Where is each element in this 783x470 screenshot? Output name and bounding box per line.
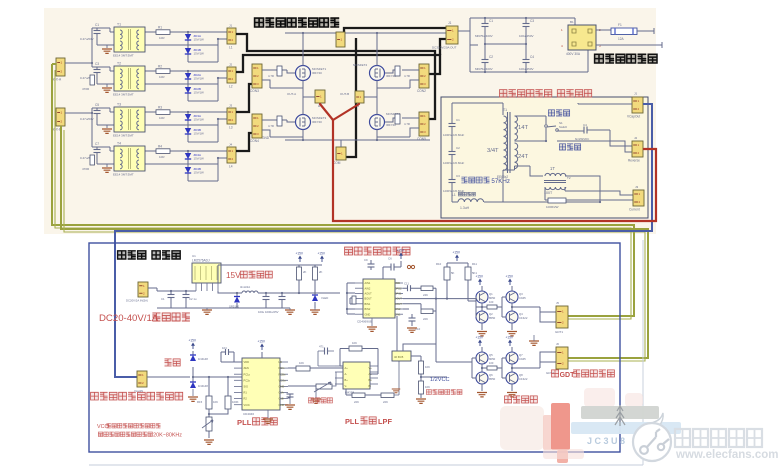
connector L3 row3	[227, 108, 236, 124]
svg-text:VCOo: VCOo	[279, 378, 287, 382]
ground C10	[407, 328, 417, 332]
ground divider	[416, 399, 426, 403]
zener ZD3A row3	[185, 114, 191, 120]
NC knot symbol	[407, 265, 410, 268]
capacitor C1 row1 input	[94, 30, 101, 32]
svg-text:R2: R2	[158, 65, 162, 69]
zener ZD1A row1	[185, 34, 191, 40]
diode D5 clamp	[190, 355, 196, 361]
svg-text:2K: 2K	[303, 270, 307, 274]
zener ZD2A row2	[185, 73, 191, 79]
svg-text:C3: C3	[530, 19, 534, 23]
svg-text:10K: 10K	[213, 400, 218, 404]
resistor R13 100	[487, 366, 497, 370]
wire M2 drain/source	[376, 33, 378, 97]
svg-text:24T: 24T	[518, 154, 528, 160]
connector GDT2	[556, 347, 568, 369]
wire totem pole column	[481, 347, 483, 391]
svg-text:J3: J3	[635, 185, 639, 189]
transistor Q3 C945	[506, 291, 518, 303]
svg-text:2K: 2K	[319, 270, 323, 274]
svg-text:J2: J2	[229, 63, 233, 67]
induction heating tank circuit box	[441, 97, 648, 218]
svg-text:ZEN: ZEN	[244, 366, 249, 370]
connector J3 Current	[633, 190, 644, 206]
wire black twisted pair row2 bus to upper CON2	[236, 55, 440, 74]
svg-text:+15V: +15V	[189, 339, 197, 343]
connector J1 VcapOut	[632, 97, 643, 113]
svg-text:GND: GND	[279, 403, 285, 407]
capacitor C2 MKP 5u/400V	[482, 59, 489, 61]
wire black COM to vertical pair	[346, 38, 356, 157]
wire black row4 to CON3 lower	[236, 133, 252, 151]
svg-text:J2: J2	[634, 136, 638, 140]
resistor 4.7R M3 gate	[277, 116, 282, 126]
svg-text:+15V: +15V	[296, 252, 304, 256]
label blue twisted pair	[118, 251, 126, 259]
svg-text:T2: T2	[117, 62, 121, 66]
svg-text:8550: 8550	[489, 316, 496, 320]
connector B output	[355, 91, 364, 103]
current transformer T2 1T:100T	[545, 173, 566, 176]
svg-text:DOUT: DOUT	[395, 297, 403, 301]
svg-text:22K: 22K	[354, 400, 359, 404]
zener ZD1B row1	[185, 48, 191, 54]
svg-text:J C 3 U 8: J C 3 U 8	[587, 436, 625, 446]
svg-text:C9: C9	[364, 258, 368, 262]
svg-text:AOUT: AOUT	[365, 292, 373, 296]
ground row2	[106, 84, 108, 87]
svg-text:CF422: CF422	[519, 316, 528, 320]
transistor Q7 C945	[506, 352, 518, 364]
connector L1 row1	[227, 28, 236, 44]
inductor L1 heating coil	[458, 199, 484, 202]
wire row2 zener chain vertical	[145, 71, 227, 101]
svg-text:GND: GND	[279, 385, 285, 389]
wire DC bus rails	[458, 18, 588, 72]
wire bridge pin2 to fuse	[596, 29, 611, 31]
connector A output	[315, 90, 325, 103]
svg-text:T1: T1	[117, 23, 121, 27]
svg-text:8050: 8050	[489, 357, 496, 361]
transformer T3 EE14	[114, 107, 145, 132]
svg-text:OPD2: OPD2	[395, 286, 403, 290]
wire row3 top net	[145, 111, 227, 113]
svg-text:J3: J3	[229, 104, 233, 108]
wire PLL top	[234, 352, 262, 362]
wire resonant cap stack vertical	[451, 103, 453, 202]
wire base rails upper	[476, 297, 502, 317]
label VCO tuning range	[98, 432, 103, 437]
wire GDX-A feed to rows 1-2	[65, 28, 97, 67]
svg-text:C1B: C1B	[279, 397, 284, 401]
svg-text:C4: C4	[583, 123, 587, 127]
svg-text:CIN1: CIN1	[395, 312, 401, 316]
capacitor C1 MKP 5u/400V	[482, 23, 489, 25]
transformer T1 EE14	[114, 27, 145, 52]
svg-text:Current: Current	[629, 208, 640, 212]
svg-text:C7: C7	[95, 142, 99, 146]
svg-text:6n3/6kVDC: 6n3/6kVDC	[575, 137, 589, 141]
svg-text:GND: GND	[365, 312, 371, 316]
svg-text:8050: 8050	[489, 296, 496, 300]
svg-text:1N4148: 1N4148	[198, 357, 208, 361]
ground VCO pot	[204, 440, 214, 444]
wire black J1 pin2 link	[440, 39, 446, 55]
svg-text:40 69 B: 40 69 B	[394, 355, 403, 359]
capacitor C3 1000u/25V	[263, 296, 270, 298]
svg-text:IRF740: IRF740	[312, 71, 322, 75]
elecfans logo circle watermark	[633, 413, 671, 461]
svg-text:VLED: VLED	[321, 296, 328, 300]
transistor Q8 CF422	[506, 372, 518, 384]
resistor 4.7R M4 gate	[395, 114, 400, 124]
trimmer phase adjust	[316, 384, 332, 389]
svg-text:100: 100	[489, 361, 494, 365]
svg-text:C1A: C1A	[279, 391, 284, 395]
connector L2 row2	[227, 67, 236, 83]
resistor R1 10R row1	[156, 30, 170, 35]
bridge rectifier B1 400V 30A	[568, 25, 596, 50]
svg-text:CON3: CON3	[250, 89, 259, 93]
svg-text:CON2: CON2	[417, 89, 426, 93]
capacitor C2 input	[183, 294, 190, 296]
resistor R4 10R row4	[156, 149, 170, 154]
svg-text:C2: C2	[489, 55, 493, 59]
resistor R1 100R/2W CT load	[548, 198, 566, 203]
inductor 3mH output choke	[242, 291, 258, 293]
svg-text:+15V: +15V	[476, 275, 484, 279]
svg-text:C1: C1	[456, 118, 460, 122]
svg-text:C2 1u: C2 1u	[189, 297, 197, 301]
wire tank bottom rail	[452, 170, 600, 202]
svg-text:C1: C1	[489, 19, 493, 23]
svg-text:4.7R: 4.7R	[404, 74, 410, 78]
svg-text:R11: R11	[472, 262, 477, 266]
svg-text:VCapOut: VCapOut	[627, 115, 640, 119]
IC U1 LM2576ADJ	[192, 263, 221, 283]
svg-text:COUT: COUT	[395, 302, 403, 306]
svg-text:CD4046: CD4046	[243, 412, 254, 416]
svg-text:10R: 10R	[159, 155, 165, 159]
svg-text:Reverse: Reverse	[628, 159, 640, 163]
resistor R1 2K	[297, 267, 302, 280]
svg-text:24K: 24K	[423, 293, 428, 297]
label resonant frequency 57KHz	[461, 177, 467, 183]
fuse F1 12A	[611, 28, 637, 35]
svg-text:10K: 10K	[425, 365, 430, 369]
svg-text:L3: L3	[229, 126, 233, 130]
svg-text:EE14 3MT:3MT: EE14 3MT:3MT	[113, 54, 134, 58]
svg-text:CD4069UB: CD4069UB	[357, 320, 372, 324]
connector GDX-A	[56, 58, 65, 76]
zener ZD3B row3	[185, 128, 191, 134]
wire VcapOut stub	[578, 103, 632, 104]
svg-text:DC20-40V/1A: DC20-40V/1A	[99, 313, 159, 324]
schematic sheet warm tint	[44, 8, 656, 234]
svg-text:VDD: VDD	[244, 360, 250, 364]
transistor Q1 8050	[476, 291, 488, 303]
svg-text:4.7R: 4.7R	[268, 74, 274, 78]
connector CON3 lower (left gate drive)	[252, 114, 262, 138]
svg-text:R2: R2	[244, 397, 248, 401]
svg-text:12A: 12A	[618, 37, 625, 41]
ground row3	[106, 125, 108, 128]
svg-text:A+: A+	[345, 366, 349, 370]
resistor R2 10R row2	[156, 69, 170, 74]
capacitor C3 100u/450V	[523, 23, 530, 25]
capacitor C10	[409, 317, 416, 319]
label big workpiece	[559, 144, 565, 150]
svg-text:L1: L1	[452, 193, 456, 197]
resistor 470R row4	[90, 155, 95, 165]
connector DC input	[138, 282, 148, 297]
wire M4 drain/source	[376, 97, 378, 140]
svg-text:R4: R4	[158, 145, 162, 149]
svg-text:V+: V+	[369, 366, 373, 370]
svg-text:100u/450V: 100u/450V	[519, 67, 534, 71]
IC U4 LM358	[343, 362, 370, 389]
wire regulator output net	[218, 281, 340, 308]
svg-text:C4: C4	[530, 55, 534, 59]
ground clamp	[192, 389, 194, 396]
resistor 4.7R M1 gate	[277, 66, 282, 76]
svg-text:15V: 15V	[226, 271, 241, 280]
label resonant cap sampling voltage input	[91, 392, 99, 400]
svg-text:471: 471	[319, 345, 324, 349]
svg-text:R10: R10	[436, 262, 442, 266]
svg-text:VCOi: VCOi	[244, 403, 251, 407]
watermark dark tower glyph	[615, 405, 625, 426]
resistor R21 10K upper	[419, 361, 424, 374]
svg-text:+15V: +15V	[506, 336, 514, 340]
resistor R16 100K	[225, 396, 231, 409]
transistor MOSFET4 (IRF740)	[370, 115, 385, 130]
wire row1 top net	[145, 31, 227, 33]
svg-text:J1: J1	[634, 92, 638, 96]
svg-text:10R: 10R	[159, 75, 165, 79]
wire CON3 to M1 gate	[262, 70, 303, 88]
ground output cap	[285, 310, 295, 314]
label dead time generator	[345, 247, 353, 255]
svg-text:V-: V-	[345, 384, 348, 388]
svg-text:4.7R: 4.7R	[268, 124, 274, 128]
resistor R2 2K	[313, 267, 318, 280]
connector BUS+ top	[336, 32, 345, 47]
connector GDX-B	[56, 108, 65, 126]
svg-text:C5: C5	[95, 103, 99, 107]
svg-text:BIN2: BIN2	[365, 307, 371, 311]
transistor Q6 8550	[476, 372, 488, 384]
svg-text:R1: R1	[158, 26, 162, 30]
resistor R12 100	[487, 305, 497, 309]
power +15V totem	[509, 281, 511, 285]
diode D6 clamp	[190, 382, 196, 388]
svg-text:CF422: CF422	[519, 377, 528, 381]
svg-text:PLL: PLL	[237, 418, 252, 427]
wire CON2 to M2 gate	[377, 70, 419, 88]
svg-text:DC310V/20A OUT: DC310V/20A OUT	[432, 46, 457, 50]
wire totem pole column	[511, 286, 513, 330]
svg-text:14T: 14T	[518, 125, 528, 131]
wire DOUT to driver bases	[403, 288, 476, 362]
ground totem	[477, 332, 487, 336]
wire row3 zener chain vertical	[145, 112, 227, 142]
wire bridge pin3 output	[596, 42, 662, 48]
resistor 470R row2	[90, 75, 95, 85]
svg-text:100K: 100K	[232, 400, 239, 404]
ground row4	[106, 164, 108, 167]
svg-text:C945: C945	[519, 357, 526, 361]
wire black twisted pair row1 bus to lower CON2	[236, 34, 435, 119]
wire input rail	[148, 288, 290, 308]
transistor Q2 8550	[476, 311, 488, 323]
svg-text:OUT-A: OUT-A	[287, 92, 296, 96]
svg-text:EE14 3MT:3MT: EE14 3MT:3MT	[113, 93, 134, 97]
svg-text:L4: L4	[229, 165, 233, 169]
svg-text:1N4148: 1N4148	[198, 384, 208, 388]
connector CON2 lower (right gate drive)	[419, 112, 429, 136]
svg-text:22K: 22K	[423, 317, 428, 321]
svg-text:Bo: Bo	[369, 378, 373, 382]
wire divider mid 1/2VCC	[421, 374, 447, 398]
transistor Q5 8050	[476, 352, 488, 364]
svg-text:L1: L1	[229, 46, 233, 50]
connector GDT1	[556, 306, 568, 328]
svg-text:CON5: CON5	[417, 137, 426, 141]
svg-text:AIN1: AIN1	[365, 281, 371, 285]
capacitor C9 above IC	[368, 263, 375, 265]
ground LED	[310, 310, 320, 314]
ground totem	[477, 393, 487, 397]
svg-text:PCBn: PCBn	[279, 372, 286, 376]
svg-text:GND: GND	[262, 136, 270, 140]
potentiometer VCO freq	[206, 417, 212, 431]
svg-text:100: 100	[489, 300, 494, 304]
wire M1 drain/source	[302, 33, 304, 97]
capacitor C13	[287, 393, 294, 395]
wire tank top rail	[452, 103, 503, 115]
wire row4 zener chain vertical	[145, 151, 227, 181]
connector J1 DC310V/20A	[446, 26, 458, 44]
svg-text:EE14 3MT:3MT: EE14 3MT:3MT	[113, 173, 134, 177]
svg-text:C3: C3	[95, 62, 99, 66]
power +15V PLL	[261, 346, 263, 350]
svg-text:VDD: VDD	[395, 281, 401, 285]
svg-text:C6: C6	[388, 257, 392, 261]
wire CON5 to M4 gate	[377, 118, 419, 137]
svg-text:U1: U1	[192, 254, 196, 258]
transformer T1 EE65x2 main	[504, 116, 507, 170]
svg-text:AIN2: AIN2	[365, 286, 371, 290]
svg-text:C11: C11	[404, 282, 409, 286]
svg-text:470R: 470R	[82, 87, 90, 91]
wire CT primary	[515, 166, 601, 202]
svg-text:J1: J1	[448, 21, 452, 25]
wire driver output to GDT1	[512, 307, 556, 322]
svg-text:GDT: GDT	[560, 372, 576, 379]
power +15V driver bias	[456, 257, 458, 261]
svg-text:SR5100: SR5100	[229, 305, 240, 309]
label autotransformer in/out	[595, 54, 604, 63]
capacitor C11 on pin	[407, 285, 409, 291]
wire GDX-B feed to rows 3-4	[65, 108, 97, 147]
svg-text:15V/1W: 15V/1W	[194, 77, 205, 81]
wire row2 top net	[145, 70, 227, 72]
svg-text:LD: LD	[279, 360, 282, 364]
svg-text:10K: 10K	[352, 341, 357, 345]
resistor left small	[352, 296, 356, 304]
wire row4 top net	[145, 150, 227, 152]
svg-text:100u 1000u/25V: 100u 1000u/25V	[258, 310, 279, 314]
label induction heating circuit title	[500, 90, 507, 97]
capacitor C4 100u	[279, 296, 286, 298]
svg-text:MKP5u/400V: MKP5u/400V	[475, 67, 493, 71]
wire totem pole column	[511, 347, 513, 391]
svg-text:10R: 10R	[159, 116, 165, 120]
wire CON4 to M3 gate	[262, 120, 303, 137]
svg-text:+15V: +15V	[397, 249, 405, 253]
svg-text:SIG: SIG	[244, 385, 248, 389]
ground row1	[106, 45, 108, 48]
ground dead time IC	[371, 318, 373, 326]
pink stamp watermark blobs	[500, 388, 681, 463]
label to GDT drive transformer	[552, 370, 559, 377]
wire driver output to GDT2	[512, 352, 556, 368]
zener ZD4B row4	[185, 167, 191, 173]
transistor Q4 CF422	[506, 311, 518, 323]
capacitor C14 feedback	[324, 348, 326, 355]
svg-text:+15V: +15V	[476, 336, 484, 340]
svg-text:15V/1W: 15V/1W	[194, 91, 205, 95]
transistor MOSFET1 (IRF740)	[296, 66, 311, 81]
svg-text:C3: C3	[456, 174, 460, 178]
connector COM	[336, 147, 346, 160]
ground input caps	[202, 310, 212, 314]
IC U5 4069 gate	[392, 351, 411, 361]
svg-text:MKP5u/400V: MKP5u/400V	[475, 34, 493, 38]
wire green twisted pair GDX-B to GDT2	[61, 126, 648, 358]
wire COM stub	[340, 140, 342, 147]
control board outer border	[89, 243, 620, 452]
label frequency tuning voltage	[426, 390, 431, 395]
svg-text:IRF740: IRF740	[312, 120, 322, 124]
svg-text:www.elecfans.com: www.elecfans.com	[675, 449, 778, 461]
svg-text:+15V: +15V	[258, 340, 266, 344]
svg-text:+15V: +15V	[506, 275, 514, 279]
resistor R10 5K	[444, 267, 450, 280]
svg-text:C2: C2	[456, 146, 460, 150]
svg-text:L2: L2	[229, 85, 233, 89]
wire H-bridge ground rail	[285, 139, 430, 141]
ground near 4069	[392, 389, 401, 393]
capacitor C1 input 100u	[168, 294, 175, 296]
connector CON3 upper (left gate drive)	[252, 64, 262, 88]
diode D1 SR5100	[234, 297, 240, 303]
ground totem	[507, 393, 517, 397]
svg-text:20K~80KHz: 20K~80KHz	[153, 433, 182, 439]
svg-text:BIN1: BIN1	[365, 302, 371, 306]
svg-text:1.3uH: 1.3uH	[460, 206, 470, 210]
svg-text:1/2VCC: 1/2VCC	[430, 377, 450, 383]
svg-text:1200VAC/0.66uF: 1200VAC/0.66uF	[443, 161, 465, 165]
capacitor C1 1200VAC/0.66uF	[449, 123, 456, 125]
transistor MOSFET3 (IRF740)	[296, 115, 311, 130]
ground PLL	[267, 410, 269, 418]
wire PLL to LPF	[288, 368, 343, 398]
svg-text:10K: 10K	[299, 361, 304, 365]
svg-text:57KHz: 57KHz	[491, 178, 510, 185]
